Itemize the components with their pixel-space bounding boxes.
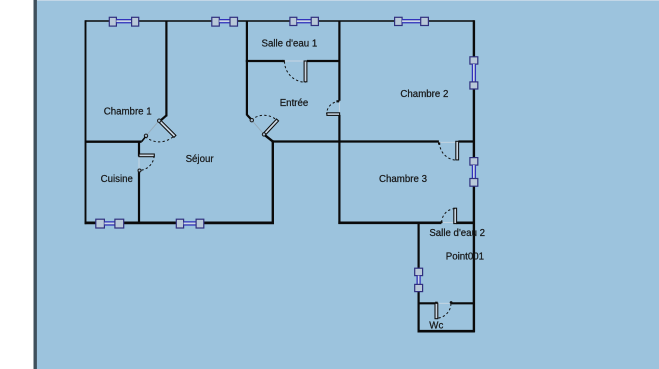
wall: Entree bottom / Chambre 3 top (y=141.5) [272, 140, 439, 142]
door D2 leaf [158, 120, 176, 138]
door D8 hinge ring [138, 169, 141, 172]
svg-text:Salle d'eau 2: Salle d'eau 2 [429, 228, 485, 239]
window W2 bar [219, 20, 230, 22]
window W8 bar [473, 165, 475, 178]
wall: Wc top left part [419, 302, 436, 304]
door D3 ray end ring [250, 119, 253, 122]
window W1 bar [116, 20, 131, 22]
wall: Salle d'eau 1 bottom right part [307, 60, 341, 62]
door D3 leaf [263, 119, 278, 135]
wall: Sejour east (x=272.8) [272, 140, 274, 223]
window W4 bar [402, 20, 421, 22]
wall: right exterior (x=473.9) [473, 20, 475, 332]
window W2 top wall: left box [212, 17, 220, 26]
window W1 top wall: left box [109, 17, 116, 26]
svg-text:Chambre 3: Chambre 3 [379, 174, 427, 185]
door D7 swing arc [437, 304, 451, 319]
door D5 hinge dot [438, 142, 440, 144]
door D4 hinge tick [336, 100, 339, 102]
door D1 swing arc [285, 61, 306, 82]
wall: Chambre1/Cuisine divider (y=141.7) [85, 140, 142, 142]
panel divider dark bar [34, 0, 37, 369]
window W9 bar [418, 276, 420, 285]
door D2 hinge ring [158, 119, 161, 122]
door D2 ray end ring [144, 134, 147, 137]
door D8 Cuisine: faint opening line [138, 156, 140, 169]
door D2 Chambre 1: wall end nib [160, 115, 166, 121]
window W7 bottom box [470, 82, 478, 89]
window W7 bar [473, 64, 475, 82]
svg-text:Salle d'eau 1: Salle d'eau 1 [262, 38, 318, 49]
door D3 Sejour/Entree: wall end nib [247, 115, 252, 120]
window W3 top wall: left box [290, 17, 297, 25]
svg-text:Chambre 1: Chambre 1 [104, 106, 152, 117]
wall: Chambre 3 top, right of door [458, 140, 474, 142]
top edge light line [37, 0, 659, 1]
window W5 bottom wall: left box [96, 219, 105, 228]
door D2 swing arc [145, 136, 174, 142]
door D7 leaf [435, 303, 438, 319]
window W6 bottom wall: left box [176, 219, 183, 228]
door D8 leaf [139, 154, 154, 157]
door D6 leaf [454, 208, 457, 223]
window W5 right box [115, 219, 124, 228]
door D1 Salle d'eau 1: faint opening line [283, 60, 304, 62]
wall: Cuisine/Sejour (x=139) lower [138, 170, 140, 223]
door D3 corner nib [265, 135, 273, 142]
window W8 right wall: top box [470, 158, 478, 166]
door D3 hinge ring [262, 133, 265, 136]
wall: bottom exterior left (Cuisine/Sejour) [85, 222, 274, 225]
window W4 right box [421, 17, 429, 25]
window W9 SdE2 west wall: top box [415, 268, 423, 275]
wall: Entree/Chambre2 (x=339.4) lower, continues to Chambre3 bottom [338, 115, 340, 224]
door D6 swing arc [442, 209, 456, 223]
wall: Salle d'eau 1 bottom left part [246, 60, 284, 62]
wall: top exterior [86, 20, 475, 22]
door D7 hinge dot [450, 301, 453, 304]
door D5 Chambre2/Chambre3: faint opening line [439, 141, 456, 143]
door D2 corner nib to Cuisine wall [142, 137, 146, 142]
window W8 bottom box [470, 179, 478, 187]
window W3 right box [311, 17, 318, 25]
wall: bottom exterior right (Chambre 3) [338, 221, 441, 224]
door D5 swing arc [440, 143, 458, 161]
window W3 bar [297, 20, 311, 22]
wall: bottom exterior right of SdE2 door [456, 221, 474, 224]
door D7 leaf top nub [435, 302, 438, 304]
window W2 right box [230, 17, 238, 26]
wall: Salle d'eau 2 west (x=418.6) [418, 222, 420, 332]
window W6 bar [184, 222, 197, 224]
door D5 leaf [456, 141, 459, 160]
door D6 hinge dot [440, 221, 442, 223]
window W6 right box [196, 219, 204, 228]
door D1 hinge dot [283, 60, 285, 62]
door D8 swing arc [139, 156, 154, 171]
svg-text:Point001: Point001 [446, 252, 484, 263]
wall: left exterior [85, 20, 87, 224]
svg-text:Séjour: Séjour [186, 154, 215, 165]
svg-text:Cuisine: Cuisine [101, 174, 133, 185]
door D2 ray line [146, 121, 159, 136]
door D4 leaf [327, 113, 340, 116]
wall: Wc bottom exterior [418, 330, 475, 333]
wall: Cuisine/Sejour (x=139) upper [138, 142, 140, 157]
door D7 Wc: faint opening line [438, 302, 451, 304]
window W5 bar [104, 222, 115, 224]
door D4 swing arc [327, 101, 340, 114]
wall: Wc top right part [451, 302, 474, 304]
window W1 right box [132, 17, 139, 26]
window W7 right wall: top box [470, 57, 478, 64]
door D3 ray line [252, 121, 264, 135]
door D6 Chambre3/SdE2: faint opening line [441, 221, 454, 223]
window W4 top wall: left box [395, 17, 403, 25]
svg-text:Chambre 2: Chambre 2 [400, 89, 448, 100]
door D3 swing arc [252, 115, 277, 120]
left white panel [0, 0, 34, 369]
wall: Sejour/Entree (x=246.9) [246, 21, 248, 115]
wall: Chambre1/Sejour (x=166.4) [165, 21, 167, 116]
door D4 Entree/Chambre2: faint opening line [338, 101, 340, 114]
svg-text:Wc: Wc [429, 321, 443, 332]
door D1 leaf [304, 61, 307, 82]
wall: Entree/Chambre2 (x=339.4) upper [338, 21, 340, 101]
svg-text:Entrée: Entrée [280, 98, 309, 109]
window W9 bottom box [415, 284, 423, 291]
